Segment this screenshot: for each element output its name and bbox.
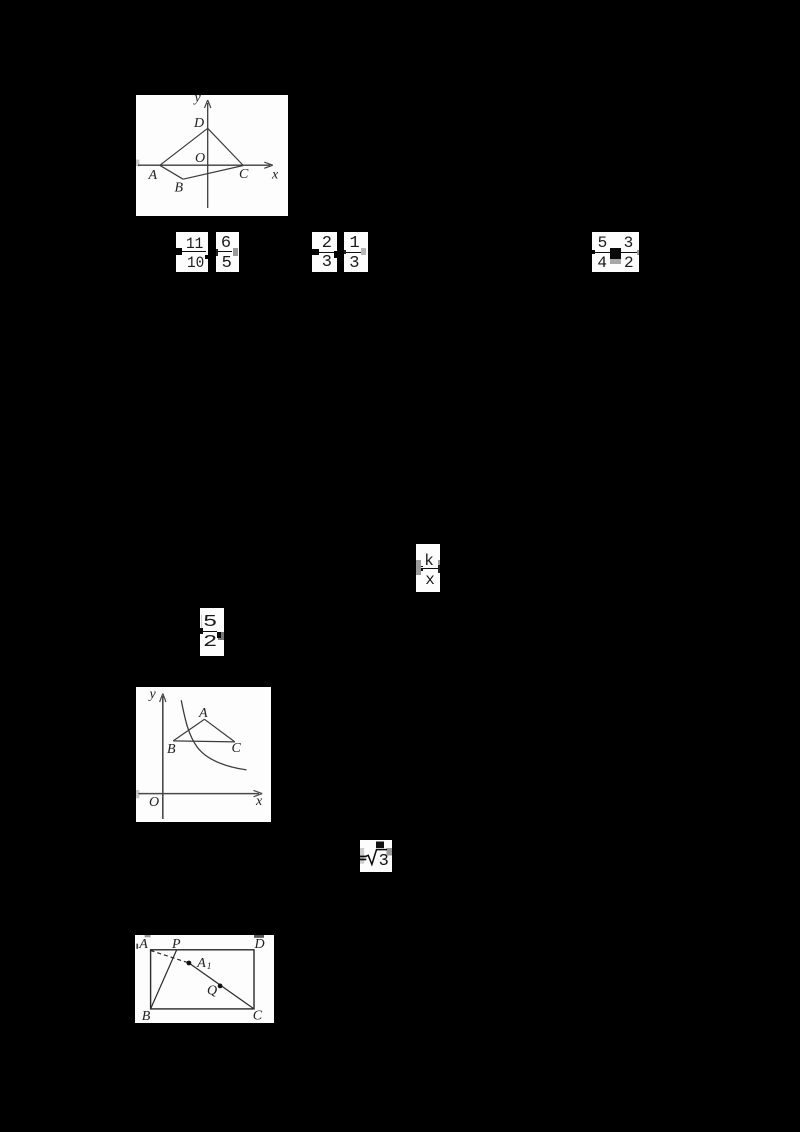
fraction -2/3 [312,232,337,272]
= sign [360,856,366,858]
svg-text:D: D [254,937,265,952]
radical [366,850,387,865]
figure 1: coordinate plane with quadrilateral ABCD [136,95,288,216]
svg-text:A: A [148,168,158,183]
svg-text:A: A [198,706,208,721]
svg-text:x: x [271,168,279,183]
fraction -11/10 [176,232,208,272]
labels [148,91,280,196]
tick at left edge [136,944,138,949]
wire P-B [151,950,177,1009]
svg-text:B: B [175,181,184,196]
svg-text:C: C [232,741,242,756]
svg-text:O: O [149,795,159,810]
fraction 1/3 [344,232,369,272]
gray smudge at left edge of x-axis [136,160,139,167]
wire A-B [173,719,204,741]
svg-text:Q: Q [207,984,217,999]
svg-text:D: D [193,116,204,131]
wire A-B [160,165,183,179]
svg-text:O: O [195,151,205,166]
figure 2: hyperbola with triangle ABC [136,687,271,822]
gray smudge at left edge of x-axis [136,790,139,799]
quadrilateral ADCB: wire A-D [160,128,244,179]
x-axis [138,162,273,168]
svg-text:A: A [138,937,148,952]
point Q [218,984,223,989]
x-axis [139,790,263,796]
fraction 5/2 [200,608,224,656]
triangle ABC: wire B-C [173,719,235,742]
labels [148,687,264,810]
svg-text:C: C [239,167,249,182]
minus left of 5/4 [590,250,595,254]
dashed wire A-A1 [151,951,189,964]
y-axis [205,100,211,208]
fraction k/x of y=k/x [416,544,440,592]
svg-text:x: x [255,794,263,809]
sqrt(3) expression [360,840,392,872]
rectangle [151,950,254,1009]
svg-text:y: y [148,687,157,702]
= sign partially visible [416,566,423,568]
svg-text:y: y [193,95,202,106]
hyperbola curve [181,700,246,770]
svg-text:3: 3 [379,852,389,871]
wire A-C [205,719,235,742]
svg-text:A: A [196,956,206,971]
comma between fractions [205,255,209,260]
fraction 6/5 [216,232,239,272]
svg-text:1: 1 [207,962,212,972]
fraction 5/4 # 3/2 [592,232,639,272]
dark fragment above D [254,935,264,938]
minus sign [176,248,182,254]
gray artifacts [360,848,364,864]
svg-text:C: C [253,1008,263,1022]
y-axis [160,694,166,820]
wire B-C [183,166,243,180]
comma on gray square [218,632,225,640]
labels [138,937,264,1024]
gray fragment above A [145,935,151,937]
svg-text:B: B [167,742,176,757]
svg-text:B: B [142,1009,151,1023]
wire D-C [208,128,244,165]
svg-text:P: P [171,937,181,952]
middle glyph blob [610,248,621,259]
wire A1-C [189,963,254,1009]
point A1 [187,961,192,966]
figure 3: rectangle ABCD with P, A1, Q [135,935,274,1023]
minus sign [312,249,319,256]
